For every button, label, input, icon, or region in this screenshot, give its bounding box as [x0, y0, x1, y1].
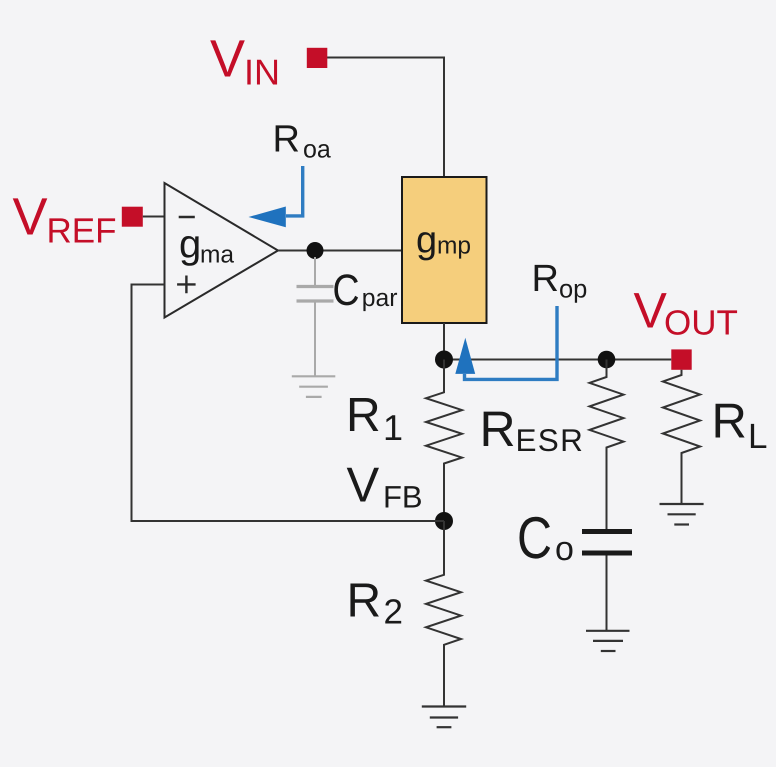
- svg-text:1: 1: [383, 407, 403, 448]
- svg-text:L: L: [748, 417, 767, 456]
- node op-amp output junction: [307, 242, 324, 259]
- resistor RL: [663, 370, 700, 504]
- capacitor Co: [582, 532, 632, 554]
- svg-text:R: R: [347, 575, 382, 628]
- svg-text:par: par: [362, 285, 398, 312]
- svg-text:R: R: [346, 389, 381, 442]
- svg-text:R: R: [532, 258, 559, 300]
- op-amp plus sign: [177, 276, 196, 294]
- svg-text:C: C: [333, 266, 360, 315]
- wire op-amp output to gmp: [278, 250, 402, 252]
- label Roa: [273, 119, 331, 164]
- node VREF terminal: [122, 207, 143, 227]
- wire gmp output down: [443, 323, 445, 360]
- svg-text:V: V: [347, 459, 380, 513]
- label Rop: [532, 258, 588, 304]
- resistor R2: [426, 521, 461, 706]
- label VFB: [347, 459, 423, 515]
- svg-text:R: R: [273, 119, 300, 161]
- ground for R2: [422, 707, 466, 728]
- op-amp U1 gma triangle: [165, 183, 279, 318]
- transconductance block gmp: [402, 177, 487, 323]
- node VIN terminal: [307, 48, 328, 68]
- wire VREF to op-amp inverting input: [143, 216, 165, 218]
- label R1: [346, 389, 403, 448]
- pointer arrow Rop (blue): [465, 306, 558, 379]
- wire Co to ground: [606, 556, 608, 631]
- svg-text:g: g: [179, 223, 201, 267]
- svg-text:2: 2: [384, 593, 403, 632]
- pointer arrow Roa (blue): [286, 166, 303, 216]
- svg-text:op: op: [559, 276, 587, 304]
- svg-text:IN: IN: [244, 52, 280, 93]
- node output junction: [435, 351, 453, 369]
- ground for Cpar (gray): [292, 376, 336, 397]
- node VOUT label: [634, 283, 738, 343]
- svg-text:R: R: [712, 395, 747, 449]
- resistor RESR: [590, 360, 624, 530]
- op-amp minus sign: [179, 216, 195, 218]
- svg-text:o: o: [555, 530, 574, 568]
- svg-text:V: V: [210, 30, 245, 89]
- label RL: [712, 395, 768, 457]
- svg-text:C: C: [517, 505, 552, 571]
- label RESR: [480, 401, 585, 458]
- node VREF label: [13, 188, 117, 251]
- node VFB junction: [435, 512, 453, 530]
- svg-text:oa: oa: [303, 136, 331, 164]
- node VOUT terminal: [671, 349, 691, 369]
- svg-text:g: g: [416, 220, 437, 262]
- svg-text:REF: REF: [47, 212, 117, 251]
- svg-text:R: R: [480, 401, 516, 457]
- label Cpar: [333, 266, 398, 315]
- svg-text:mp: mp: [437, 233, 471, 260]
- svg-text:OUT: OUT: [664, 304, 738, 343]
- svg-text:ESR: ESR: [516, 422, 585, 458]
- node VIN label: [210, 30, 280, 93]
- svg-text:V: V: [13, 188, 48, 247]
- capacitor Cpar (gray): [297, 257, 334, 376]
- node output junction 2: [598, 351, 616, 369]
- ground for Co: [586, 631, 630, 651]
- resistor R1: [426, 360, 462, 522]
- svg-text:FB: FB: [383, 480, 423, 515]
- ground for RL: [660, 504, 704, 525]
- label Co: [517, 505, 574, 571]
- svg-text:ma: ma: [200, 242, 234, 269]
- label R2: [347, 575, 403, 632]
- op-amp gma label: [179, 223, 234, 269]
- gmp label: [416, 220, 471, 262]
- svg-text:V: V: [634, 283, 668, 339]
- wire feedback VFB to op-amp plus input: [132, 285, 445, 522]
- wire VIN to gmp: [327, 58, 444, 178]
- wire output rail to VOUT: [444, 359, 671, 361]
